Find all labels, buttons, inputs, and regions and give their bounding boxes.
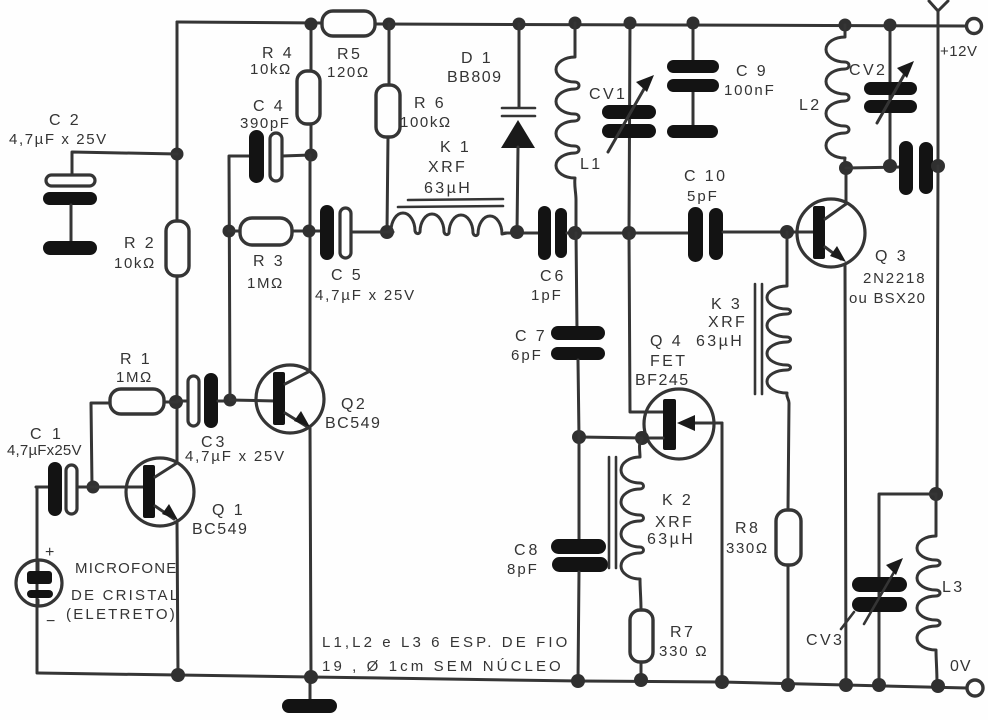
svg-text:Q 3: Q 3 [875, 248, 908, 265]
wire tap down to C8 [578, 437, 581, 541]
wire left vertical upper [176, 22, 179, 221]
wire R4 bottom to Q2 collector [309, 155, 312, 371]
+12V terminal [967, 19, 982, 34]
capacitor C2 [46, 175, 95, 186]
svg-text:Q 1: Q 1 [212, 502, 245, 519]
node junction C7/C8 tap [572, 430, 586, 444]
svg-text:−: − [46, 613, 58, 630]
wire CV1 node down to Q4 drain [629, 233, 664, 412]
svg-text:C6: C6 [540, 268, 566, 285]
svg-text:120Ω: 120Ω [327, 64, 370, 81]
node junction D1 top [513, 18, 526, 31]
node junction C4 right [305, 149, 318, 162]
transistor Q1 [126, 458, 194, 526]
node junction rail Q3 emitter [839, 678, 853, 692]
node junction rail R7 [634, 673, 648, 687]
node junction R1/C3 [169, 395, 183, 409]
antenna [929, 1, 948, 166]
svg-text:R5: R5 [337, 46, 362, 63]
svg-text:C 7: C 7 [515, 328, 547, 345]
wire Q2 emitter down to rail [310, 427, 311, 677]
svg-text:BC549: BC549 [192, 521, 248, 538]
resistor R3 [240, 218, 292, 245]
node junction Q1 base [87, 481, 100, 494]
wire Q1 base [93, 486, 146, 489]
svg-text:1pF: 1pF [531, 287, 563, 304]
resistor R8 [776, 510, 801, 565]
svg-text:10kΩ: 10kΩ [250, 61, 292, 78]
svg-text:4,7µF x 25V: 4,7µF x 25V [315, 287, 416, 304]
node junction Q3 base / K3 top [780, 225, 794, 239]
node junction rail Q2 emitter ground [304, 670, 318, 684]
node junction K1 right / D1 bottom [510, 225, 524, 239]
node junction rail L3 [931, 679, 945, 693]
node junction Q3 collector [839, 161, 853, 175]
wire Q2 base [230, 400, 276, 401]
svg-text:2N2218: 2N2218 [863, 270, 926, 287]
capacitor C6 [538, 206, 551, 260]
svg-text:K 1: K 1 [440, 139, 471, 156]
svg-text:8pF: 8pF [507, 561, 539, 578]
node junction antenna line [931, 159, 945, 173]
wire antenna line down [937, 166, 938, 494]
svg-text:R 4: R 4 [262, 45, 294, 62]
node junction C6 right / L1 bottom [568, 226, 582, 240]
wire R2 bottom to Q1 collector [176, 276, 179, 462]
svg-text:330Ω: 330Ω [726, 540, 769, 557]
wire vertical C4-left / R3-left / base [229, 156, 250, 400]
svg-text:100nF: 100nF [724, 82, 776, 99]
wire C2 branch [72, 152, 177, 176]
bottom rail [38, 673, 967, 688]
svg-text:R 6: R 6 [414, 95, 446, 112]
resistor R2 [166, 221, 189, 276]
variable capacitor CV3 [879, 494, 936, 685]
svg-text:K 3: K 3 [711, 296, 742, 313]
inductor L2 [826, 25, 849, 168]
svg-text:L1,L2 e L3 6 ESP. DE FIO: L1,L2 e L3 6 ESP. DE FIO [322, 634, 570, 651]
node junction R3 left [223, 225, 236, 238]
wire top rail right of R5 [375, 24, 967, 26]
svg-text:6pF: 6pF [511, 347, 543, 364]
transistor Q2 [256, 365, 324, 433]
resistor R1 [110, 389, 164, 414]
node junction Q4 source [635, 431, 649, 445]
svg-text:CV3: CV3 [806, 632, 844, 649]
node junction CV2 top [884, 19, 897, 32]
svg-text:C8: C8 [514, 542, 540, 559]
wire Q4 source to C7/C8 tap [579, 437, 642, 438]
svg-text:C 10: C 10 [684, 168, 727, 185]
0V terminal [967, 680, 983, 696]
variable capacitor CV1 [629, 23, 630, 233]
svg-text:DE CRISTAL: DE CRISTAL [71, 587, 180, 604]
wire top rail left of R5 [177, 22, 322, 23]
svg-text:19 , Ø 1cm SEM NÚCLEO: 19 , Ø 1cm SEM NÚCLEO [322, 658, 564, 675]
svg-text:C 2: C 2 [49, 112, 81, 129]
node junction L2 top [839, 19, 852, 32]
svg-text:390pF: 390pF [240, 115, 291, 132]
diode D1 varicap [518, 24, 521, 107]
svg-text:K 2: K 2 [662, 492, 693, 509]
svg-text:CV2: CV2 [849, 62, 887, 79]
inductor K2 [621, 439, 644, 610]
wire Q3 emitter down to rail [845, 264, 846, 685]
capacitor C8 [551, 539, 606, 554]
capacitor C9 [692, 23, 695, 127]
svg-text:BF245: BF245 [635, 372, 690, 389]
antenna coupling capacitor [899, 141, 913, 195]
transistor Q4 FET [644, 389, 714, 459]
node junction CV2 bottom [883, 159, 897, 173]
node junction C2 tap [171, 148, 184, 161]
inductor K3 [767, 232, 790, 510]
node junction rail C8 [571, 674, 585, 688]
svg-text:1MΩ: 1MΩ [247, 275, 284, 292]
svg-text:XRF: XRF [655, 514, 694, 531]
svg-text:C 5: C 5 [331, 267, 363, 284]
ground [309, 677, 312, 702]
node junction rail CV3 [872, 678, 886, 692]
svg-text:L1: L1 [580, 156, 603, 173]
node junction K1 left [380, 225, 394, 239]
node junction rail Q4 gate [715, 675, 729, 689]
svg-text:C 9: C 9 [736, 63, 768, 80]
wire C6 node down to C7 [576, 233, 577, 330]
svg-text:R8: R8 [735, 520, 760, 537]
svg-text:L2: L2 [799, 97, 822, 114]
wire Q3 collector up [845, 168, 848, 204]
svg-text:L3: L3 [942, 579, 965, 596]
svg-text:4,7µFx25V: 4,7µFx25V [7, 442, 82, 459]
node junction rail R8 [781, 678, 795, 692]
svg-text:1MΩ: 1MΩ [116, 369, 153, 386]
node junction R6 top [383, 18, 396, 31]
node junction C9 top [687, 17, 700, 30]
svg-text:C 1: C 1 [30, 426, 64, 443]
svg-text:C 4: C 4 [253, 98, 285, 115]
node junction Q2 base [224, 394, 237, 407]
inductor L1 [556, 23, 579, 233]
svg-text:D 1: D 1 [461, 50, 493, 67]
svg-text:R 1: R 1 [120, 351, 152, 368]
inductor L3 [917, 494, 940, 685]
svg-text:FET: FET [650, 353, 687, 370]
node junction rail Q1 emitter [171, 668, 185, 682]
svg-text:100kΩ: 100kΩ [400, 114, 452, 131]
wire Q1 emitter down [177, 521, 178, 675]
capacitor C4 [249, 130, 264, 183]
wire collector tank y167 [846, 166, 938, 168]
microphone MIC [36, 487, 39, 673]
svg-text:4,7µF x 25V: 4,7µF x 25V [185, 448, 286, 465]
svg-text:MICROFONE: MICROFONE [75, 560, 177, 577]
resistor R7 [630, 610, 653, 662]
capacitor C5 [320, 205, 334, 260]
svg-text:(ELETRETO): (ELETRETO) [66, 606, 177, 623]
svg-text:0V: 0V [950, 658, 972, 675]
svg-text:R7: R7 [670, 624, 695, 641]
svg-text:5pF: 5pF [687, 188, 719, 205]
svg-text:XRF: XRF [708, 314, 747, 331]
transistor Q3 [797, 199, 865, 267]
node junction R3 right [303, 225, 316, 238]
node junction CV3/L3 branch [929, 487, 943, 501]
capacitor C3 [177, 400, 189, 403]
capacitor C7 [551, 326, 605, 340]
svg-text:ou BSX20: ou BSX20 [849, 290, 926, 307]
svg-text:+12V: +12V [940, 43, 977, 60]
svg-text:63µH: 63µH [696, 333, 744, 350]
svg-text:BC549: BC549 [325, 415, 381, 432]
svg-text:10kΩ: 10kΩ [114, 255, 156, 272]
capacitor C1 [36, 486, 50, 489]
svg-text:BB809: BB809 [447, 69, 503, 86]
svg-text:Q2: Q2 [341, 396, 367, 413]
wire main y232 [351, 231, 393, 234]
variable capacitor CV2 [889, 25, 892, 166]
node junction L1 top [569, 17, 582, 30]
svg-text:XRF: XRF [428, 159, 467, 176]
svg-text:+: + [45, 544, 57, 561]
resistor R5 [322, 11, 375, 36]
svg-text:Q 4: Q 4 [650, 333, 683, 350]
svg-text:330 Ω: 330 Ω [659, 643, 708, 660]
inductor K1 [387, 213, 507, 236]
capacitor C10 [688, 207, 703, 262]
svg-text:63µH: 63µH [647, 531, 695, 548]
node junction R4 top [305, 18, 318, 31]
node junction CV1 bottom [622, 226, 636, 240]
svg-text:CV1: CV1 [589, 86, 627, 103]
resistor R6 [376, 85, 400, 137]
svg-text:R 2: R 2 [124, 235, 156, 252]
node junction CV1 top [624, 17, 637, 30]
svg-text:4,7µF x 25V: 4,7µF x 25V [9, 131, 108, 148]
svg-text:R 3: R 3 [253, 253, 285, 270]
resistor R4 [297, 71, 320, 124]
svg-text:63µH: 63µH [424, 180, 472, 197]
